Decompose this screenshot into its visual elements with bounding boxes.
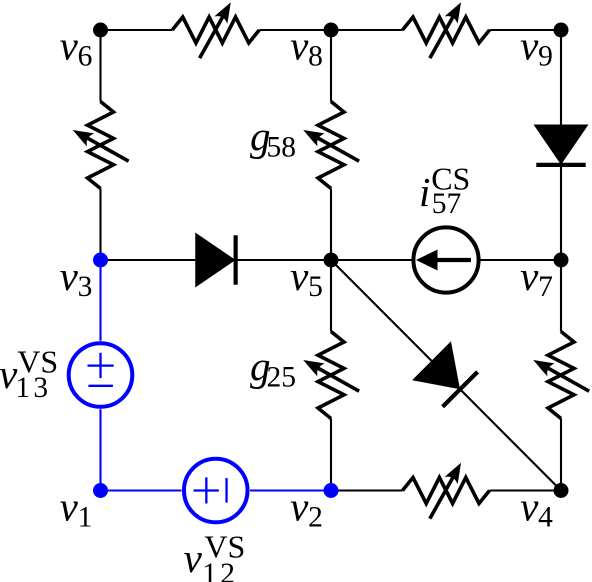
diode D35 (v3-v5) [195,233,235,288]
wire R63 to v3 [99,189,101,261]
svg-text:58: 58 [267,131,297,163]
svg-text:25: 25 [267,361,297,393]
node v9 [554,23,569,38]
svg-text:v: v [290,483,309,529]
wire R24 to v4 [490,489,562,491]
svg-text:i: i [419,169,430,215]
svg-text:5: 5 [308,271,323,303]
node v1 [93,483,108,498]
svg-text:3: 3 [33,372,48,404]
wire g58 to v5 [330,189,332,261]
label v13VS [0,344,58,405]
label v8 [290,22,323,72]
svg-text:v: v [520,22,539,68]
wire D97 to v7 [560,165,562,260]
svg-text:v: v [184,535,203,581]
svg-text:6: 6 [78,40,93,72]
node v7 [554,253,569,268]
VCCS conductance g58 (v8-v5) [300,102,360,189]
label v6 [60,22,93,72]
wire D54 to v4 [461,390,561,490]
voltage source v12VS (v1-v2) [184,459,248,523]
svg-text:3: 3 [78,271,93,303]
variable resistor R74 (v7-v4) [530,332,590,419]
svg-text:57: 57 [432,188,462,220]
wire v3 to voltage source v13 (blue) [99,260,101,341]
svg-text:v: v [290,22,309,68]
node v6 [93,23,108,38]
diode D54 (v5-v4 diagonal) [412,341,479,408]
node v8 [324,23,339,38]
svg-text:v: v [60,483,79,529]
svg-text:8: 8 [308,40,323,72]
label v12VS [184,529,246,582]
wire v6 to R63 [99,30,101,102]
node v3 [93,253,108,268]
variable resistor R89 (v8-v9) [403,0,490,58]
svg-text:4: 4 [538,501,553,533]
wire g25 to v2 [330,419,332,491]
label v9 [520,22,553,72]
current source i57CS (v5-v7) [413,227,478,292]
wire v8 to R89 [331,29,403,31]
svg-text:9: 9 [538,40,553,72]
wire R89 to v9 [490,29,562,31]
label g58 [250,113,296,163]
label g25 [250,343,296,393]
label i57CS [419,160,470,220]
VCCS conductance g25 (v5-v2) [300,332,360,419]
voltage source v13VS (v1-v3) [69,343,133,407]
wire v5 to D54 diagonal [331,260,432,361]
svg-text:v: v [520,253,539,299]
wire v8 to g58 [330,30,332,102]
wire v2 to R24 [331,489,403,491]
svg-text:v: v [290,253,309,299]
wire v1 to voltage source v12 (blue) [101,489,182,491]
wire v9 to D97 [560,30,562,125]
wire v3 to D35 [101,259,196,261]
label v5 [290,253,323,303]
diode D97 (v9-v7) [534,125,589,165]
label v3 [60,253,93,303]
svg-text:1: 1 [202,558,217,582]
wire i57 to v7 [479,259,561,261]
svg-text:v: v [520,483,539,529]
node v4 [554,483,569,498]
label v1 [60,483,93,533]
svg-text:v: v [60,253,79,299]
label v2 [290,483,323,533]
wire v13 to v1 (blue) [99,409,101,490]
svg-text:v: v [60,22,79,68]
node v2 [324,483,339,498]
wire R74 to v4 [560,419,562,491]
wire R68 to v8 [259,29,331,31]
label v4 [520,483,553,533]
svg-text:7: 7 [538,271,553,303]
label v7 [520,253,553,303]
variable resistor R24 (v2-v4) [403,459,490,519]
variable resistor R68 (v6-v8) [172,0,259,58]
wire v6 to R68 [101,29,173,31]
wire D35 to v5 [236,259,331,261]
variable resistor R63 (v6-v3) [69,102,129,189]
svg-text:1: 1 [15,372,30,404]
wire v7 to R74 [560,260,562,332]
svg-text:2: 2 [308,501,323,533]
wire v5 to current source i57 [331,259,413,261]
svg-text:1: 1 [78,501,93,533]
wire v12 to v2 (blue) [250,489,331,491]
svg-text:2: 2 [220,558,235,582]
wire v5 to g25 [330,260,332,332]
node v5 [324,253,339,268]
